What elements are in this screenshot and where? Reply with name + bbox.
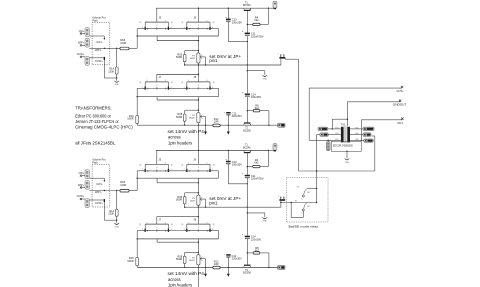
wire JP+ to relay and shield loop [285, 58, 298, 60]
wire XFMR- to relay [317, 134, 320, 136]
svg-text:TRANSFORMERS:: TRANSFORMERS: [75, 105, 111, 110]
transformer ground [346, 151, 347, 152]
svg-text:TX1: TX1 [341, 123, 346, 126]
relay contact K1a [308, 188, 317, 190]
wire transformer top [331, 119, 333, 129]
svg-text:Bal/SE mode relay: Bal/SE mode relay [289, 224, 319, 228]
svg-text:H4: H4 [307, 206, 309, 208]
wire JP- to relay [281, 202, 317, 204]
connector XFMR+ [318, 127, 328, 131]
connector XFMROUT- [364, 139, 373, 142]
svg-text:Edcor PC 600:600 or: Edcor PC 600:600 or [75, 113, 111, 118]
wire OUT- line [360, 120, 362, 141]
svg-text:RL.: RL. [297, 186, 300, 188]
svg-text:Jensen JT-123-FLPCH or: Jensen JT-123-FLPCH or [75, 119, 119, 124]
svg-text:GNDOUT: GNDOUT [393, 103, 407, 107]
wire OUT+ line [308, 88, 310, 140]
connector XFMROUT+ [363, 127, 374, 131]
connector XFMR- [320, 133, 328, 137]
connector GND out [363, 133, 371, 137]
svg-text:all JFets 2SK2145BL: all JFets 2SK2145BL [75, 140, 116, 145]
svg-text:Cinemag CMOG-4LPC (HPC): Cinemag CMOG-4LPC (HPC) [75, 124, 133, 129]
svg-text:EDCOR_PS600600: EDCOR_PS600600 [333, 145, 353, 148]
transformer body box [331, 141, 361, 151]
svg-text:OUT-: OUT- [397, 121, 404, 125]
right channel instance [77, 144, 285, 287]
svg-text:OUT+: OUT+ [397, 89, 405, 93]
relay return loop [302, 211, 304, 218]
relay dotted box [287, 178, 329, 223]
header JP6 3pin [328, 140, 329, 141]
svg-text:RL.: RL. [295, 200, 298, 202]
svg-text:H3: H3 [307, 192, 309, 194]
left channel instance [77, 1, 285, 150]
wire GNDOUT line [346, 102, 348, 119]
relay contact K1b [304, 203, 308, 209]
